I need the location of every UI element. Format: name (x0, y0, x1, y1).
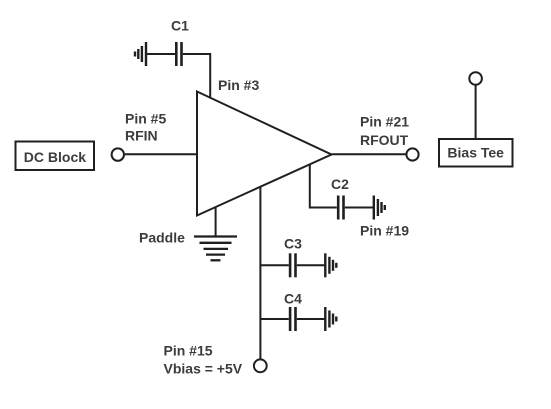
wire: C4 branch (261, 318, 289, 320)
wire: C1 to Pin #3 (top edge of amp) (183, 54, 210, 99)
RF ground (C4) (325, 307, 336, 331)
svg-text:Paddle: Paddle (139, 230, 185, 246)
capacitor C4 (290, 307, 295, 331)
svg-text:Pin #3: Pin #3 (218, 77, 259, 93)
svg-text:C4: C4 (284, 291, 302, 307)
svg-text:Pin #21: Pin #21 (360, 113, 409, 129)
Bias Tee box (439, 139, 513, 167)
svg-text:Pin #15: Pin #15 (164, 343, 213, 359)
wire: amp output to RFOUT terminal (332, 153, 406, 155)
Vbias terminal circle (254, 359, 267, 372)
amplifier triangle (197, 92, 332, 216)
svg-text:Pin #19: Pin #19 (360, 223, 409, 239)
svg-text:Vbias = +5V: Vbias = +5V (164, 361, 243, 377)
wire: RFIN terminal to amp input (125, 153, 196, 155)
wire: C3 branch (261, 264, 289, 266)
RFIN terminal circle (112, 148, 124, 160)
wire: Bias Tee terminal to box (475, 85, 477, 139)
svg-text:Pin #5: Pin #5 (125, 110, 166, 126)
capacitor C2 (338, 196, 343, 220)
svg-text:Bias Tee: Bias Tee (447, 145, 504, 161)
RF ground (Pin #19) (374, 196, 385, 220)
wire: RF ground to C1 (146, 53, 175, 55)
svg-text:DC Block: DC Block (24, 149, 86, 165)
RFOUT terminal circle (406, 148, 418, 160)
DC Block box (16, 142, 95, 171)
svg-text:C3: C3 (284, 236, 302, 252)
wire: C3 to RF ground (297, 264, 325, 266)
svg-text:C2: C2 (331, 176, 349, 192)
svg-text:RFIN: RFIN (125, 128, 158, 144)
capacitor C1 (176, 42, 181, 66)
wire: amp to Vbias terminal (main vertical) (259, 187, 261, 359)
paddle earth ground (194, 237, 237, 261)
Bias Tee terminal circle (469, 72, 482, 85)
svg-text:RFOUT: RFOUT (360, 132, 409, 148)
wire: amp to paddle ground (215, 208, 217, 237)
wire: C4 to RF ground (297, 318, 325, 320)
wire: C2 to RF ground (345, 207, 373, 209)
wire: amp to C2 (310, 165, 337, 208)
capacitor C3 (290, 253, 295, 277)
RF ground (C3) (325, 253, 336, 277)
svg-text:C1: C1 (171, 18, 189, 34)
RF ground (C1 left side) (135, 42, 146, 66)
